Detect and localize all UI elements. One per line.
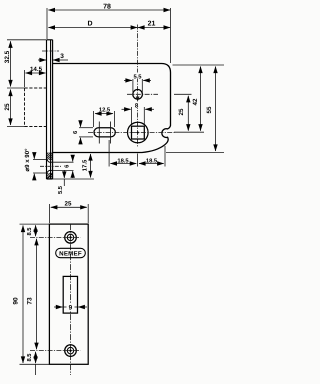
svg-text:25: 25 [4,103,11,111]
dimension 25 left [10,90,12,126]
dimension 14.5 [25,70,46,87]
faceplate lower stub hatching [47,153,53,180]
svg-text:17.5: 17.5 [82,159,89,171]
bottom screw hole [65,345,77,357]
svg-text:73: 73 [27,297,34,305]
hole centerline [40,165,62,167]
latch slot [63,276,77,313]
dimension 8.5 bottom [35,352,37,375]
svg-text:18.5: 18.5 [146,157,158,164]
svg-text:32.5: 32.5 [4,50,11,63]
svg-text:⌀9 x 90°: ⌀9 x 90° [24,148,31,172]
svg-text:6: 6 [64,164,71,168]
svg-text:21: 21 [148,21,156,28]
svg-text:25: 25 [178,108,185,115]
svg-text:14.5: 14.5 [30,66,43,73]
dimension 55 [215,67,217,152]
dimension 12.5 [94,111,115,127]
oval slot tick lines [98,122,100,144]
dimension 9 [54,306,87,308]
dimension dia 9 x 90 [33,153,46,181]
top screw hole [65,232,77,244]
bolt hidden outline [25,88,47,127]
cylinder hole [133,90,143,100]
cylinder hole centerline [127,93,158,95]
svg-text:8.5: 8.5 [26,227,33,236]
vertical centerline through cylinder + follower [137,25,139,148]
dimension 32.5 [7,39,46,41]
top screw hole centerline (side view) [42,50,59,52]
svg-text:8: 8 [135,103,139,110]
dimension 5.5 [124,78,151,94]
svg-text:90: 90 [13,297,20,305]
dimension 21 [138,27,170,29]
plate top/bottom extension lines [20,223,50,225]
dimension 78 [48,9,170,11]
top hole centerline [30,236,81,238]
dimension 42 [200,67,202,131]
svg-text:25: 25 [65,201,72,208]
dimension 8 [122,107,155,125]
dimension 8.5 top [35,225,37,236]
svg-text:3: 3 [60,53,64,60]
faceplate edge view [47,40,53,179]
countersunk screw hole (section) [47,160,53,173]
extension line right (case back) [170,8,172,63]
svg-text:18.5: 18.5 [117,157,129,164]
small arrow on centerline [136,97,140,103]
svg-text:78: 78 [103,4,111,11]
svg-text:NEMEF: NEMEF [59,250,82,257]
lock case outline [53,64,171,153]
svg-text:5.5: 5.5 [133,74,142,80]
plate vertical centerline [70,224,72,375]
svg-text:12.5: 12.5 [99,107,111,114]
dimension 73 [36,239,38,349]
dimension 6 (oval height) [79,121,93,145]
svg-text:55: 55 [206,106,213,113]
extension line left (faceplate front) [46,8,48,39]
horizontal centerline through oval, follower, notch [88,131,176,133]
oval slot [94,128,115,137]
dimension 3 (faceplate thickness) [38,59,68,61]
svg-text:9: 9 [69,305,73,312]
bolt (hidden) extension lines [7,87,25,89]
dimension 25 right [187,96,189,131]
bottom hole centerline [30,350,81,352]
follower (hub circle + square hole) [128,122,149,143]
dimensions 18.5 18.5 [109,140,165,167]
right side extension lines [173,64,225,66]
dimension 17.5 [90,154,92,178]
dimension 90 [22,226,24,364]
svg-text:8.5: 8.5 [26,353,33,362]
dimension 6 (hole) [72,155,74,178]
faceplate bottom extension [53,178,94,180]
front plate outline [49,224,88,364]
NEMEF logo [56,248,86,257]
dimension 25 (front plate width) [49,204,88,223]
dimension D [48,27,137,29]
svg-text:42: 42 [192,98,199,105]
svg-text:5.5: 5.5 [58,185,64,194]
dimension 5.5 (bottom) [63,170,65,186]
svg-text:D: D [87,21,92,28]
svg-text:6: 6 [72,130,79,134]
